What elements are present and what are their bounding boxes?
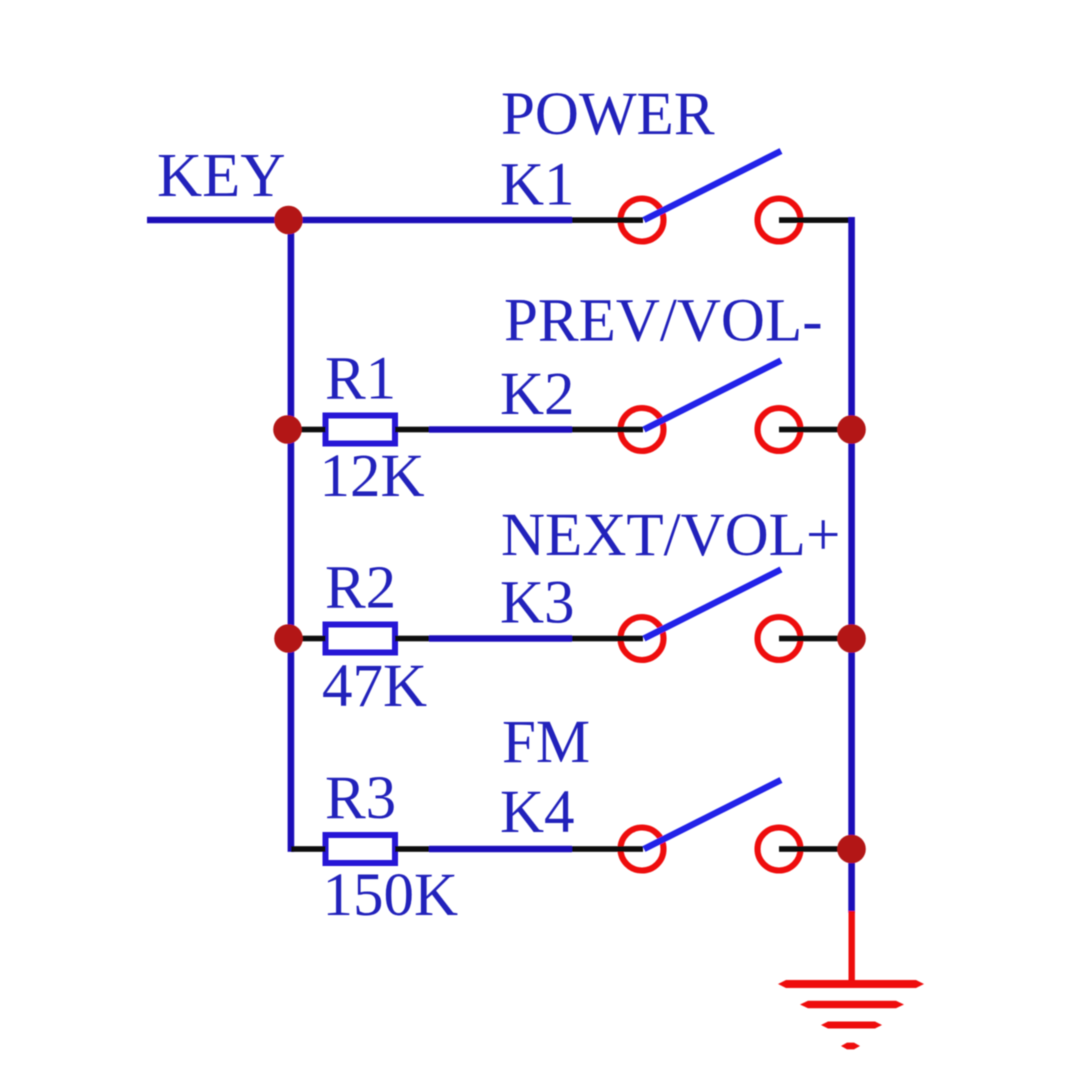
wire KEY horizontal (net KEY to K1)	[147, 217, 572, 223]
svg-text:FM: FM	[502, 709, 590, 776]
resistor R2 body	[326, 625, 396, 653]
wire K3 left pin (black)	[572, 636, 643, 642]
wire R3 left pin (black)	[291, 846, 326, 852]
node junction right K4 row	[837, 835, 866, 864]
wire K3 right pin (black)	[779, 636, 852, 642]
svg-text:R2: R2	[325, 555, 396, 622]
switch K2 left contact circle	[621, 408, 664, 451]
resistor R1 body	[326, 416, 396, 444]
switch K4 right contact circle	[758, 828, 801, 871]
svg-text:K1: K1	[500, 152, 575, 219]
wire K2 row blue segment	[429, 426, 572, 432]
switch K4 lever	[644, 780, 781, 849]
wire R1 left pin (black)	[294, 427, 326, 433]
node junction right K2 row	[837, 415, 866, 444]
switch K3 lever	[644, 570, 781, 639]
ground bar 4	[841, 1043, 860, 1050]
ground bar 3	[821, 1022, 882, 1029]
switch K2 lever	[644, 361, 781, 430]
node junction left R2 row	[274, 624, 303, 653]
switch K4 left contact circle	[621, 828, 664, 871]
svg-text:POWER: POWER	[501, 81, 715, 148]
wire R1 right pin (black)	[395, 427, 429, 433]
ground stem (red)	[849, 911, 855, 983]
wire K4 row blue segment	[429, 846, 572, 852]
wire R2 right pin (black)	[395, 636, 429, 642]
svg-text:K3: K3	[500, 570, 575, 637]
svg-text:NEXT/VOL+: NEXT/VOL+	[501, 502, 840, 569]
resistor R3 body	[326, 835, 396, 863]
ground bar 2	[800, 1001, 904, 1008]
wire K2 left pin (black)	[572, 427, 643, 433]
svg-text:150K: 150K	[323, 862, 459, 929]
svg-text:12K: 12K	[320, 443, 425, 510]
wire K1 right pin (black)	[779, 217, 852, 223]
svg-text:PREV/VOL-: PREV/VOL-	[504, 288, 823, 355]
node junction on KEY wire	[274, 206, 303, 235]
switch K3 right contact circle	[758, 617, 801, 660]
node junction left R1 row	[273, 415, 302, 444]
wire left vertical bus	[288, 217, 295, 852]
wire K4 left pin (black)	[572, 846, 643, 852]
ground bar 1	[778, 980, 924, 988]
wire R2 left pin (black)	[294, 636, 326, 642]
switch K1 left contact circle	[621, 199, 664, 242]
wire right vertical bus	[848, 217, 855, 913]
svg-text:KEY: KEY	[157, 140, 285, 210]
wire K4 right pin (black)	[779, 846, 852, 852]
node junction right K3 row	[837, 624, 866, 653]
svg-text:47K: 47K	[322, 653, 427, 720]
wire K1 left pin (black)	[572, 217, 643, 223]
switch K1 right contact circle	[758, 199, 801, 242]
switch K2 right contact circle	[758, 408, 801, 451]
svg-text:R1: R1	[325, 346, 396, 413]
switch K1 lever	[644, 151, 781, 220]
wire K3 row blue segment	[429, 635, 572, 641]
svg-text:R3: R3	[325, 765, 396, 832]
svg-text:K2: K2	[500, 361, 575, 428]
wire K2 right pin (black)	[779, 427, 852, 433]
switch K3 left contact circle	[621, 617, 664, 660]
wire R3 right pin (black)	[395, 846, 429, 852]
svg-text:K4: K4	[500, 779, 575, 846]
